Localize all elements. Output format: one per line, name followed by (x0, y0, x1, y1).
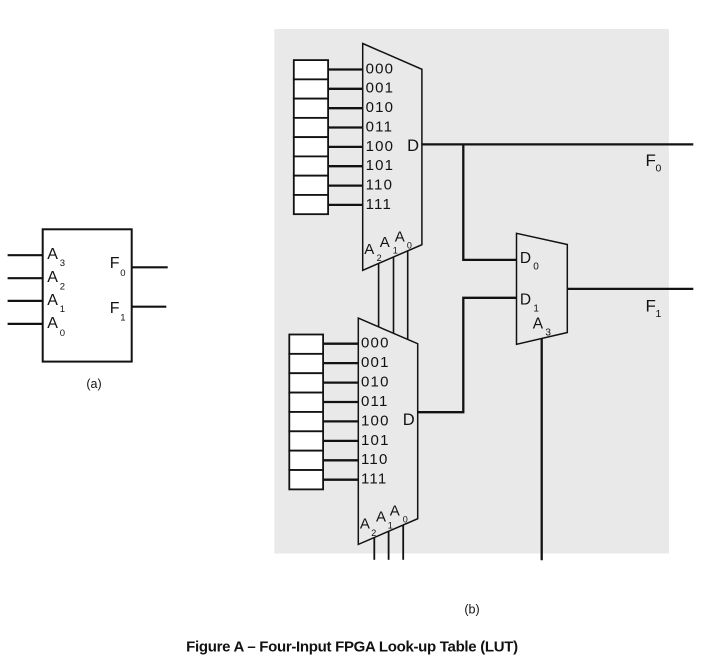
svg-text:2: 2 (60, 281, 65, 292)
svg-text:0: 0 (533, 262, 539, 273)
svg-text:A: A (395, 229, 405, 246)
svg-text:1: 1 (533, 304, 539, 315)
svg-text:A: A (380, 234, 390, 251)
svg-text:0: 0 (656, 163, 662, 175)
svg-text:0: 0 (60, 328, 65, 339)
svg-text:A: A (47, 292, 58, 309)
svg-text:101: 101 (366, 157, 395, 174)
svg-text:D: D (520, 250, 531, 267)
svg-text:D: D (403, 411, 415, 429)
svg-text:1: 1 (120, 312, 125, 323)
svg-text:110: 110 (361, 451, 389, 468)
svg-text:100: 100 (366, 138, 395, 155)
svg-text:111: 111 (361, 471, 387, 488)
svg-text:100: 100 (361, 412, 390, 429)
svg-text:111: 111 (366, 196, 392, 213)
svg-text:(a): (a) (86, 377, 101, 391)
svg-text:110: 110 (366, 177, 394, 194)
svg-text:3: 3 (545, 328, 551, 339)
svg-text:F: F (110, 255, 120, 272)
svg-text:0: 0 (403, 515, 408, 525)
svg-text:A: A (360, 515, 370, 532)
svg-text:0: 0 (407, 240, 412, 250)
svg-text:1: 1 (393, 246, 398, 256)
svg-text:A: A (364, 241, 374, 258)
svg-text:101: 101 (361, 432, 390, 449)
svg-text:2: 2 (371, 528, 376, 538)
svg-text:000: 000 (366, 60, 395, 77)
svg-text:Figure A – Four-Input FPGA Loo: Figure A – Four-Input FPGA Look-up Table… (186, 639, 518, 656)
svg-text:1: 1 (656, 308, 662, 320)
svg-text:010: 010 (361, 374, 390, 391)
svg-text:(b): (b) (464, 603, 479, 617)
svg-text:D: D (407, 137, 419, 155)
svg-text:0: 0 (120, 268, 125, 279)
svg-text:011: 011 (361, 393, 389, 410)
svg-text:F: F (646, 297, 656, 316)
svg-text:F: F (646, 151, 656, 170)
svg-text:1: 1 (388, 520, 393, 530)
svg-text:A: A (47, 246, 58, 263)
svg-text:F: F (110, 300, 120, 317)
svg-text:A: A (47, 315, 58, 332)
svg-text:010: 010 (366, 99, 395, 116)
svg-text:000: 000 (361, 335, 390, 352)
svg-text:001: 001 (361, 354, 390, 371)
svg-text:D: D (520, 292, 531, 309)
svg-text:011: 011 (366, 118, 394, 135)
svg-text:3: 3 (60, 258, 65, 269)
svg-text:A: A (533, 316, 544, 333)
svg-text:001: 001 (366, 80, 395, 97)
svg-text:A: A (47, 269, 58, 286)
svg-text:A: A (390, 503, 400, 520)
svg-text:1: 1 (60, 304, 65, 315)
svg-text:2: 2 (377, 253, 382, 263)
svg-text:A: A (376, 508, 386, 525)
